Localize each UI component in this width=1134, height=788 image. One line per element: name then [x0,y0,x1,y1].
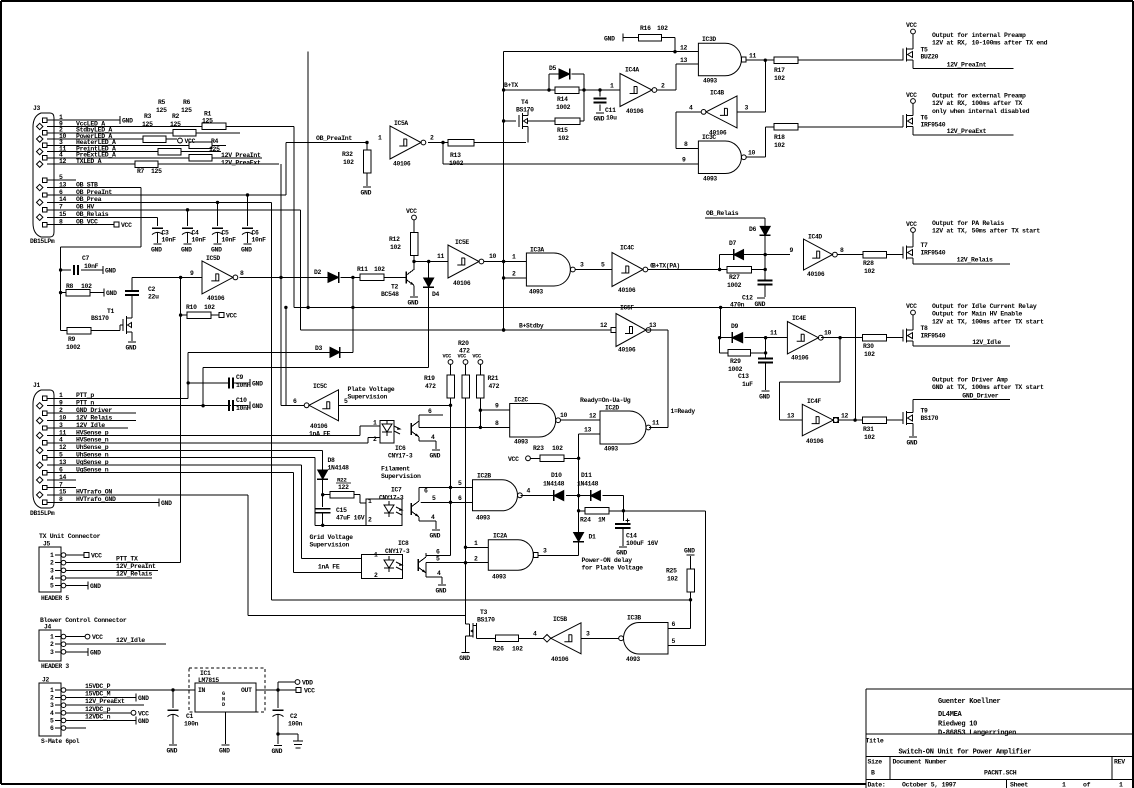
svg-text:IC4E: IC4E [792,315,806,322]
ground for C2 [277,734,279,744]
svg-text:12V_Idle: 12V_Idle [116,637,145,644]
svg-text:6: 6 [458,495,462,502]
nand gate IC3C 4093 [698,141,741,174]
wire HeaterLED_A [57,144,189,146]
svg-text:472: 472 [489,383,500,390]
svg-text:C10: C10 [236,397,247,404]
wire HVTrafo_ON [57,494,248,496]
J5 pin 3 [61,568,66,573]
svg-text:12V at TX, 100ms after TX star: 12V at TX, 100ms after TX start [932,318,1044,325]
capacitor C2 100n (output) [277,690,279,708]
svg-text:3: 3 [586,631,590,638]
wire IC2A out [538,554,579,556]
svg-text:10: 10 [824,330,832,337]
optocoupler IC7 LED [384,505,394,513]
ground for R32 [363,186,371,188]
svg-text:October 5, 1997: October 5, 1997 [902,781,956,788]
svg-text:4: 4 [527,488,531,495]
IC7 pin6 wire [418,487,420,501]
ground for T9 [912,428,914,436]
svg-text:C4: C4 [192,230,200,237]
J1 pin 11 [37,432,43,438]
svg-text:GND: GND [151,247,162,254]
svg-text:2: 2 [373,436,377,443]
IC8 pin5 wire [425,563,427,577]
svg-text:IC5A: IC5A [394,120,408,127]
wire OB_PreaInt [57,194,286,196]
svg-text:4093: 4093 [492,574,506,581]
svg-text:GND: GND [755,301,766,308]
svg-text:102: 102 [864,268,875,275]
wire R24 row to IC3B pin5 riser [623,510,705,512]
svg-text:R16: R16 [640,25,651,32]
wire D11 drop [622,496,624,521]
svg-text:100n: 100n [288,721,303,728]
wire T7 output [912,263,914,264]
resistor R23 102 [530,457,539,459]
svg-text:VCC: VCC [906,221,917,228]
wire IC5E output [484,261,527,263]
resistor R3 [143,136,166,143]
svg-text:VCC: VCC [443,354,452,360]
svg-text:1: 1 [368,498,372,505]
svg-text:10nF: 10nF [162,237,177,244]
IC8 pin4 wire [426,576,442,578]
svg-text:R19: R19 [424,375,435,382]
svg-text:T4: T4 [521,99,529,106]
svg-text:VCC: VCC [508,456,519,463]
svg-text:C6: C6 [252,230,260,237]
VCC at R21 [478,360,483,365]
connector J1 DB15LPm [33,390,54,508]
svg-text:102: 102 [774,142,785,149]
J3 pin 15 [37,214,43,220]
capacitor C9 10nF [188,382,228,384]
svg-text:HEADER 5: HEADER 5 [41,595,69,602]
ground for T3 [462,652,470,654]
wire IC2C pin9 [480,409,509,411]
svg-text:D10: D10 [551,472,562,479]
svg-text:R14: R14 [557,96,568,103]
svg-text:IC4A: IC4A [625,67,639,74]
svg-text:40106: 40106 [618,287,636,294]
optocoupler IC6 transistor [410,423,412,435]
svg-text:Supervision: Supervision [310,542,350,549]
svg-text:472: 472 [425,383,436,390]
J3 pin 4 [43,156,47,160]
svg-text:12: 12 [841,413,849,420]
diode D10 1N4148 [554,491,564,501]
svg-text:2: 2 [50,560,54,567]
svg-text:1: 1 [50,687,54,694]
svg-text:12V_Relais: 12V_Relais [957,257,993,264]
svg-text:VCC: VCC [185,138,196,145]
wire PTT_TX riser [180,277,182,562]
wire IC5D input [132,276,202,278]
wire IC2B pin5 [419,486,473,488]
svg-text:BS170: BS170 [91,315,109,322]
wire J5 pin1 to VCC [66,554,84,556]
mosfet T8 IRF9540 [902,330,904,342]
wire PowerLED_A [57,138,143,140]
svg-text:2: 2 [474,556,478,563]
svg-text:40106: 40106 [310,423,328,430]
wire 15VDC_M to GND [66,697,136,699]
inverter IC4C 40106 [612,253,643,287]
title block frame [866,688,1133,690]
svg-text:102: 102 [390,244,401,251]
svg-text:10nF: 10nF [236,405,251,412]
svg-text:13: 13 [584,427,592,434]
wire OB_HV [57,209,301,211]
svg-text:CNY17-3: CNY17-3 [379,495,404,502]
svg-text:4: 4 [50,575,54,582]
svg-text:5: 5 [458,480,462,487]
svg-text:1: 1 [50,552,54,559]
ground for IC6 [432,449,440,451]
svg-text:4: 4 [50,710,54,717]
svg-text:R8: R8 [66,283,74,290]
IC6 pin5 wire [418,421,420,427]
resistor R25 102 vertical [690,556,692,569]
wire IC3A out [575,269,612,271]
svg-text:VCC: VCC [906,92,917,99]
wire PTT_n [57,405,231,407]
J1 pin 2 [43,411,47,415]
J1 pin 5 [43,456,47,460]
svg-text:GND: GND [604,36,615,43]
svg-text:T6: T6 [921,115,929,122]
wire IC2D pin13 [579,433,600,435]
svg-text:HEADER 3: HEADER 3 [41,663,69,670]
svg-text:11: 11 [652,420,660,427]
svg-text:R24: R24 [580,517,591,524]
svg-text:5: 5 [50,583,54,590]
svg-text:GND: GND [684,548,695,555]
wire J3 pin5 stub [57,179,76,181]
wire R19 riser [450,405,452,556]
svg-text:R11: R11 [357,266,368,273]
svg-text:Supervision: Supervision [381,473,421,480]
svg-text:GND: GND [90,649,101,656]
resistor R14 1002 [555,87,579,94]
diode D5 [549,73,559,75]
svg-text:C11: C11 [605,107,616,114]
J3 pin 9 [37,123,43,129]
wire J4 pin3 to GND [66,651,88,653]
svg-text:8: 8 [840,247,844,254]
svg-text:12V_Idle: 12V_Idle [972,339,1001,346]
wire IC4E out loop to IC4F [839,338,841,382]
resistor R27 1002 [727,266,752,273]
svg-text:OB_PreaInt: OB_PreaInt [316,135,352,142]
svg-text:12V_PreaExt: 12V_PreaExt [947,128,987,135]
svg-text:8: 8 [495,420,499,427]
svg-text:2: 2 [50,641,54,648]
wire IC5C output [281,404,304,406]
transistor T2 BC548 [405,271,407,283]
ground for C5 [214,243,222,245]
wire UhSense_n [57,457,315,459]
capacitor C5 10nF [217,202,219,226]
wire R1 riser to bus [293,126,295,307]
svg-text:4: 4 [431,514,435,521]
svg-text:GND: GND [106,290,117,297]
svg-text:D5: D5 [549,65,557,72]
svg-text:Size: Size [868,759,883,766]
wire T9 drain to output [912,400,914,408]
svg-text:Filament: Filament [381,466,410,473]
nand gate IC3D 4093 [698,43,741,76]
VCC at R12 [412,215,417,220]
svg-text:11: 11 [437,253,445,260]
diode D8 1N4148 [322,450,324,470]
svg-text:8: 8 [684,141,688,148]
wire OB_Relais [57,216,158,218]
transistor T3 BS170 [465,615,467,624]
wire T3 drain [476,637,495,639]
capacitor C11 10u [599,90,601,97]
wire T8 output [912,345,914,348]
resistor R17 102 [774,57,798,64]
svg-text:GND: GND [252,380,263,387]
svg-text:VCC: VCC [92,634,103,641]
wire IC4E out [821,337,863,339]
svg-text:IC6: IC6 [395,445,406,452]
svg-text:10: 10 [560,412,568,419]
svg-text:GND: GND [161,500,172,507]
svg-text:R4: R4 [211,138,219,145]
J1 pin 3 [43,426,47,430]
svg-text:IN: IN [198,687,206,694]
resistor R18 102 [774,124,798,131]
svg-text:R25: R25 [666,568,677,575]
wire B+TX row [504,89,555,91]
wire R22 to IC7 pin1 [359,495,361,503]
VCC at R19 [448,360,453,365]
svg-text:IRF9540: IRF9540 [921,250,946,257]
wire IC5C output riser [285,307,287,405]
VCC at T7 [912,233,914,243]
IC8 pin6 wire [425,553,427,556]
diode D1 [578,527,580,533]
svg-text:R26: R26 [493,646,504,653]
J2 pin 4 [61,711,66,716]
svg-text:6: 6 [436,549,440,556]
wire PTT_n to D4 row [203,367,429,369]
J3 pin 11 [37,148,43,154]
svg-text:R13: R13 [450,152,461,159]
inverter IC4E 40106 [787,322,818,354]
VCC at T6 [912,104,914,112]
svg-text:40106: 40106 [806,438,824,445]
resistor R9 1002 [61,330,67,332]
J5 pin 2 [61,560,66,565]
svg-text:4: 4 [431,434,435,441]
inverter IC5D 40106 [202,261,233,294]
capacitor C3 10nF [157,217,159,226]
inverter IC4F 40106 [802,404,833,436]
J1 pin 8 [43,500,47,504]
svg-text:GND: GND [105,268,116,275]
svg-text:2: 2 [374,572,378,579]
wire OB_Relais row [705,217,765,219]
resistor R11 102 [360,274,384,281]
wire J4 pin1 to VCC [66,636,85,638]
svg-text:IC2D: IC2D [605,405,619,412]
ground for IC7 [432,529,440,531]
svg-text:1: 1 [374,552,378,559]
wire J1 pin14 stub [57,479,76,481]
capacitor C4 10nF [187,210,189,226]
svg-text:102: 102 [552,445,563,452]
wire J3 pin1 to GND [57,119,120,121]
svg-text:IC3B: IC3B [627,615,641,622]
resistor R30 102 [863,334,887,341]
svg-text:GND: GND [181,247,192,254]
svg-text:102: 102 [667,576,678,583]
svg-text:Output for PA Relais: Output for PA Relais [932,220,1004,227]
svg-text:D7: D7 [729,240,737,247]
svg-text:VCC: VCC [91,553,102,560]
svg-text:6: 6 [50,725,54,732]
svg-text:T9: T9 [921,408,929,415]
svg-text:J2: J2 [42,677,49,684]
svg-text:R20: R20 [458,340,469,347]
VCC at R20 [463,360,468,365]
svg-text:R22: R22 [337,477,347,484]
inverter IC5B 40106 (mirrored) [543,635,551,643]
svg-text:T5: T5 [921,47,929,54]
svg-text:1002: 1002 [66,344,81,351]
wire PreExtLED_A [57,157,189,159]
svg-text:BS170: BS170 [921,415,939,422]
inverter IC5F 40106 [616,314,646,347]
svg-text:R32: R32 [342,151,353,158]
svg-text:S-Mate 6pol: S-Mate 6pol [41,738,80,745]
svg-text:C1: C1 [186,713,194,720]
chassis ground [278,733,298,735]
wire IC5D out row [239,276,328,278]
J1 pin 1 [43,396,47,400]
wire IC3B pin6 [668,627,691,629]
svg-text:102: 102 [657,25,668,32]
wire IC5A output [428,142,448,144]
svg-text:3: 3 [745,105,749,112]
svg-text:PTT_TX: PTT_TX [116,556,138,563]
wire IC2B pin6 [421,501,473,503]
svg-text:GND: GND [126,345,137,352]
J3 pin 10 [37,136,43,142]
J1 pin 10 [37,417,43,423]
capacitor C10 10nF [203,404,228,406]
svg-text:1: 1 [373,420,377,427]
svg-text:40106: 40106 [393,161,411,168]
svg-text:D-86853 Langerringen: D-86853 Langerringen [938,729,1016,737]
svg-text:102: 102 [512,646,523,653]
VDD branch [277,682,279,690]
wire GND_Driver [57,412,136,414]
wire R20 riser [465,398,467,616]
voltage regulator IC1 LM7815 [189,668,265,712]
svg-text:R2: R2 [172,113,180,120]
wire IC4B out to IC3C pin8 [676,111,701,113]
wire UgSense_n [57,472,293,474]
resistor R7 [135,161,158,168]
wire R13 riser to IC3C [442,143,444,164]
ground for C13 [762,390,770,392]
svg-text:D6: D6 [749,226,757,233]
svg-text:GND: GND [167,748,178,755]
J2 pin 5 [61,718,66,723]
svg-text:IC4B: IC4B [710,90,724,97]
svg-text:T2: T2 [391,284,399,291]
resistor R24 1M [579,510,585,512]
wire long bus y307 [294,306,721,308]
transistor T4 BS170 [504,120,516,122]
svg-text:102: 102 [864,351,875,358]
diode D3 [330,347,340,357]
svg-text:12V_Relais: 12V_Relais [116,571,152,578]
wire D3 row [188,351,330,353]
capacitor C12 470n [758,280,773,282]
svg-text:102: 102 [864,434,875,441]
wire PTT_p [57,397,188,399]
ground above R25 [687,554,695,556]
wire PTT_n riser [202,368,204,406]
nand gate IC2B 4093 [473,480,518,511]
resistor R20 472 vertical [465,364,467,375]
svg-text:13: 13 [680,57,688,64]
svg-text:for Plate Voltage: for Plate Voltage [582,565,644,572]
svg-text:4: 4 [533,631,537,638]
wire R21 riser [479,398,481,427]
mosfet T6 IRF9540 [902,115,904,127]
wire T6 output [912,131,914,135]
J2 pin 2 [61,695,66,700]
wire 12VDC_p to VCC [66,712,131,714]
svg-text:GND_Driver: GND_Driver [962,392,998,399]
wire D9 rail to IC4E [766,337,788,339]
svg-text:125: 125 [202,118,213,125]
svg-text:R18: R18 [774,134,785,141]
inverter IC4D 40106 [804,239,833,270]
svg-text:Blower Control Connector: Blower Control Connector [40,617,127,624]
svg-text:3: 3 [50,702,54,709]
wire IC3C output [746,156,765,158]
svg-text:GND: GND [361,190,372,197]
svg-text:6: 6 [672,621,676,628]
svg-text:4093: 4093 [703,176,717,183]
svg-text:4093: 4093 [626,656,640,663]
svg-text:122: 122 [338,484,349,491]
svg-text:13: 13 [649,322,657,329]
svg-text:47uF 16V: 47uF 16V [336,515,365,522]
J4 pin 2 [61,642,66,647]
svg-text:40106: 40106 [207,295,225,302]
J2 pin 6 [61,726,66,731]
svg-text:12V at TX, 50ms after TX start: 12V at TX, 50ms after TX start [932,228,1040,235]
svg-text:1: 1 [50,634,54,641]
svg-text:40106: 40106 [791,355,809,362]
svg-text:GND: GND [122,118,133,125]
svg-text:VCC: VCC [906,303,917,310]
optocoupler IC6 LED [382,424,392,432]
svg-text:IC5F: IC5F [620,305,634,312]
svg-text:Output for Driver Amp: Output for Driver Amp [932,377,1008,384]
svg-text:IC2B: IC2B [477,473,491,480]
svg-text:BC548: BC548 [381,291,399,298]
